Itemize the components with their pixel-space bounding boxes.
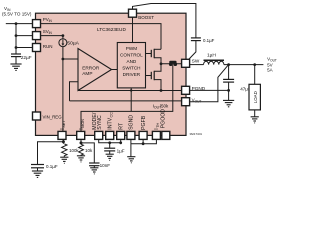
- op-amp error amplifier: [78, 49, 112, 91]
- svg-text:(5.5V TO 15V): (5.5V TO 15V): [2, 12, 32, 17]
- resistor R2 10k: [79, 144, 93, 156]
- load box: [249, 65, 260, 117]
- PWM control block: [117, 43, 145, 88]
- svg-text:BOOST: BOOST: [138, 15, 154, 20]
- svg-text:1µF: 1µF: [117, 149, 125, 154]
- ground under SGND: [127, 157, 135, 163]
- wire SW node to sense: [161, 63, 182, 65]
- wire output rail: [224, 64, 264, 66]
- pin ITH: [152, 122, 160, 139]
- svg-text:DRIVER: DRIVER: [123, 72, 141, 77]
- wire internal ground rail: [78, 90, 182, 92]
- wire ISET to 0.1uF: [38, 142, 64, 164]
- svg-text:LTC3623EUD: LTC3623EUD: [97, 27, 126, 32]
- pin SW: [182, 59, 200, 68]
- current sense element: [169, 61, 177, 66]
- wire IMON external: [80, 139, 82, 144]
- ground under 10nF: [90, 168, 98, 174]
- wire VOUT sense external: [190, 65, 229, 102]
- pin MODE/SYNC: [92, 112, 103, 139]
- capacitor C1 22uF: [11, 54, 32, 64]
- node output junction: [227, 63, 230, 66]
- wire MODE/SYNC INTVCC RT rail: [99, 139, 121, 142]
- wire SGND internal stub: [130, 88, 132, 112]
- node PGFB rail dot: [142, 142, 145, 145]
- svg-text:ERROR: ERROR: [82, 65, 100, 70]
- svg-text:PGOOD: PGOOD: [161, 109, 167, 129]
- wire VOUT sense rail: [70, 100, 182, 102]
- transistor Q1 top FET: [146, 49, 162, 64]
- inductor L1 1uH: [204, 52, 225, 64]
- svg-text:VIN_REG: VIN_REG: [43, 115, 63, 120]
- pin PGND: [182, 86, 206, 94]
- svg-text:SGND: SGND: [129, 115, 135, 130]
- svg-text:INTV: INTV: [108, 117, 114, 129]
- transistor Q2 bottom FET: [146, 64, 162, 91]
- ground under 0.1uF iset: [32, 171, 43, 177]
- svg-text:3623 TA01: 3623 TA01: [190, 132, 203, 136]
- wire SW external: [190, 64, 204, 66]
- svg-text:CC: CC: [110, 112, 114, 118]
- capacitor C5 10nF: [89, 163, 110, 168]
- wire internal PVIN rail to top FET drain: [41, 24, 162, 50]
- capacitor C4 0.1uF iset: [31, 164, 58, 171]
- wire ISET external: [62, 139, 64, 143]
- svg-text:PGFB: PGFB: [141, 115, 147, 130]
- pin PVIN: [33, 17, 53, 27]
- svg-text:0.1µF: 0.1µF: [46, 164, 58, 169]
- node error amp plus input dot: [62, 58, 65, 61]
- svg-text:SET: SET: [62, 120, 66, 128]
- wire error amp plus input: [63, 58, 78, 60]
- svg-text:LOAD: LOAD: [253, 91, 258, 103]
- svg-text:22µF: 22µF: [21, 55, 32, 60]
- pin RT: [117, 122, 125, 139]
- node PGND cap dot: [227, 89, 230, 92]
- svg-text:50µA: 50µA: [67, 40, 79, 46]
- node VOUT output label: [267, 57, 277, 73]
- ground under 100k: [60, 157, 68, 163]
- wire IMON to 10nF: [81, 143, 94, 163]
- wire error amp minus input: [70, 82, 79, 101]
- pin PGOOD: [161, 109, 170, 140]
- pin PGFB: [139, 115, 147, 139]
- pin SVIN: [33, 29, 53, 39]
- ground under 1uF: [106, 154, 114, 160]
- svg-text:RUN: RUN: [43, 44, 53, 49]
- svg-text:10nF: 10nF: [100, 163, 111, 168]
- svg-text:0.1µF: 0.1µF: [203, 38, 215, 43]
- pin BOOST: [129, 9, 155, 20]
- node IMON junction dot: [80, 141, 83, 144]
- node INTVCC rail dot: [108, 141, 111, 144]
- svg-text:MON: MON: [81, 119, 85, 128]
- node IOUT/50k label: [153, 103, 169, 109]
- resistor R1 100k: [62, 144, 80, 157]
- svg-text:SWITCH: SWITCH: [122, 66, 140, 71]
- wire IMON sense path: [81, 65, 173, 132]
- node ground rail FET dot: [160, 89, 163, 92]
- node VIN junction dots: [15, 22, 18, 49]
- pin RUN: [33, 44, 53, 52]
- pin IMON: [77, 119, 85, 140]
- svg-text:1µH: 1µH: [207, 52, 216, 58]
- svg-text:AMP: AMP: [82, 71, 92, 76]
- wire PGND external: [190, 89, 229, 91]
- svg-text:SYNC: SYNC: [97, 115, 103, 130]
- svg-text:5A: 5A: [267, 67, 273, 72]
- pin ISET: [58, 120, 66, 140]
- svg-text:PWM: PWM: [126, 46, 137, 51]
- node ISET junction dot: [62, 140, 65, 143]
- pin INTVCC: [106, 112, 114, 140]
- ground under 22uF: [10, 64, 21, 70]
- svg-text:TH: TH: [156, 122, 160, 127]
- capacitor C2 0.1uF boost: [189, 38, 215, 60]
- node ground rail SGND dot: [130, 89, 132, 91]
- pin SGND: [127, 115, 135, 140]
- svg-text:10k: 10k: [85, 148, 93, 153]
- svg-text:RT: RT: [119, 122, 125, 130]
- wire VIN input rail: [6, 24, 33, 54]
- wire SGND PGFB ITH rail: [131, 139, 157, 156]
- ground under 47uF: [223, 100, 234, 106]
- svg-text:CONTROL: CONTROL: [120, 53, 143, 58]
- wire internal SVIN rail: [41, 36, 63, 39]
- wire error amp output: [112, 69, 118, 71]
- wire ISET vertical: [62, 47, 64, 132]
- wire BOOST to boost capacitor: [133, 4, 196, 38]
- ground under load: [251, 117, 259, 123]
- capacitor C3 47uF: [223, 65, 251, 101]
- node SVIN rail corner dot: [62, 34, 65, 37]
- pin VOUT: [182, 98, 202, 106]
- node RT rail dot: [119, 141, 122, 144]
- ground under 10k: [77, 156, 85, 162]
- wire BOOST internal: [132, 17, 134, 42]
- op-amp U1 chip body LTC3623EUD: [36, 13, 187, 135]
- svg-text:100k: 100k: [69, 148, 79, 153]
- svg-text:SW: SW: [192, 59, 200, 64]
- pin VIN_REG: [33, 112, 63, 120]
- node SW internal junction: [160, 62, 163, 65]
- svg-text:AND: AND: [126, 59, 136, 64]
- current source 50uA: [59, 39, 80, 47]
- capacitor C6 1uF: [104, 143, 125, 154]
- node VIN label: [2, 6, 32, 17]
- svg-text:/50k: /50k: [160, 103, 169, 108]
- node load junction: [253, 63, 256, 66]
